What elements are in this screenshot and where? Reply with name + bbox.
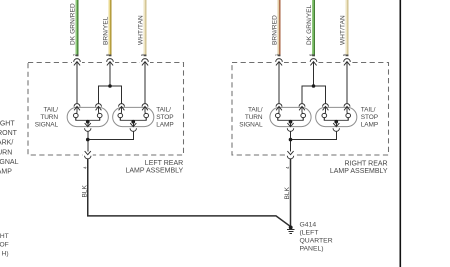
lamp L2 tail/stop common junction	[131, 120, 135, 124]
connector C1 pin 5 (left box)	[142, 59, 149, 66]
svg-text:TAIL/: TAIL/	[43, 107, 58, 114]
lamp L4 tail/stop ground lead	[335, 122, 337, 127]
ground bus right box	[290, 131, 292, 151]
svg-text:BRN/RED: BRN/RED	[271, 15, 278, 45]
svg-text:TURN: TURN	[245, 114, 263, 121]
svg-text:HT: HT	[0, 233, 9, 240]
svg-text:DK GRN/RED: DK GRN/RED	[69, 3, 76, 45]
lamp L4 tail/stop bottom connector	[333, 128, 339, 131]
svg-text:BLK: BLK	[81, 184, 88, 197]
connector C1 pin 2 (left box)	[74, 59, 81, 66]
connector C1 pin 6 (left box)	[107, 59, 114, 66]
lamp L3 tail/turn right terminal connector	[299, 104, 305, 113]
svg-text:1: 1	[274, 53, 279, 56]
wire WHT/TAN (right stop feed)	[346, 0, 349, 56]
lamp L3 tail/turn right filament	[301, 112, 306, 120]
wire tail feed drop	[109, 62, 111, 86]
svg-text:BRN/YEL: BRN/YEL	[102, 16, 109, 45]
lamp L3 tail/turn bottom connector	[287, 128, 293, 131]
wire tail feed drop (right)	[313, 62, 315, 86]
lamp L4 tail/stop left terminal connector	[323, 104, 329, 113]
svg-text:STOP: STOP	[156, 114, 173, 121]
lamp L2 tail/stop left terminal connector	[119, 104, 125, 113]
svg-text:WHT/TAN: WHT/TAN	[339, 15, 346, 45]
svg-text:H): H)	[2, 250, 9, 257]
svg-text:STOP: STOP	[361, 114, 378, 121]
connector C2 pin 6 (right box)	[310, 59, 317, 66]
wire WHT/TAN (left stop feed)	[144, 0, 147, 56]
svg-text:TURN: TURN	[40, 114, 58, 121]
left rear lamp assembly box	[28, 63, 184, 156]
lamp L4 tail/stop right filament	[346, 112, 351, 120]
svg-text:DK GRN/YEL: DK GRN/YEL	[306, 4, 313, 45]
lamp L3 tail/turn common junction	[289, 120, 293, 124]
svg-text:QUARTER: QUARTER	[300, 238, 333, 245]
lamp L4 tail/stop internal bus	[324, 118, 348, 121]
wire BRN/YEL (left tail feed)	[109, 0, 112, 56]
svg-text:(LEFT: (LEFT	[300, 230, 319, 237]
lamp L2 tail/stop right terminal connector	[142, 104, 148, 113]
lamp L3 tail/turn ground lead	[290, 122, 292, 127]
lamp L1 tail/turn left terminal connector	[74, 104, 80, 113]
lamp L3 tail/turn left terminal connector	[276, 104, 282, 113]
tail feed branch rail (right box)	[302, 86, 326, 103]
connector C2 pin 5 (right box)	[344, 59, 351, 66]
lamp L4 tail/stop common junction	[334, 120, 338, 124]
svg-text:5: 5	[140, 53, 145, 56]
lamp L4 tail/stop: housing	[316, 107, 357, 126]
lamp L2 tail/stop ground lead	[132, 122, 134, 127]
lamp L1 tail/turn left filament	[73, 112, 78, 120]
splice node (left box)	[108, 84, 112, 88]
lamp L1 tail/turn bottom connector	[85, 128, 91, 131]
svg-text:TAIL/: TAIL/	[361, 107, 376, 114]
right rear lamp assembly box	[232, 63, 389, 156]
tail feed branch rail (left box)	[99, 86, 122, 103]
wire to right lamp3 left terminal	[278, 62, 280, 104]
svg-text:RIGHT: RIGHT	[0, 120, 15, 127]
page divider line	[399, 0, 401, 267]
BLK ground wire from right box to G414	[290, 159, 292, 227]
wire to right lamp4 right terminal	[346, 62, 348, 104]
BLK ground wire from left box to G414	[88, 159, 290, 226]
svg-text:2: 2	[72, 53, 77, 56]
svg-text:5: 5	[342, 53, 347, 56]
lamp L3 tail/turn internal bus	[278, 118, 303, 121]
svg-text:TAIL/: TAIL/	[156, 107, 171, 114]
svg-text:WHT/TAN: WHT/TAN	[137, 15, 144, 45]
lamp L3 tail/turn: housing	[270, 107, 311, 126]
wire BRN/RED (right turn signal feed)	[278, 0, 281, 56]
ground G414 symbol	[289, 225, 293, 229]
lamp L1 tail/turn ground lead	[87, 122, 89, 127]
lamp L1 tail/turn right filament	[97, 112, 102, 120]
svg-text:TAIL/: TAIL/	[248, 107, 263, 114]
ground junction (right box)	[289, 138, 293, 142]
lamp L4 tail/stop left filament	[322, 112, 327, 120]
svg-text:PARK/: PARK/	[0, 140, 13, 147]
splice node (right box)	[312, 84, 316, 88]
lamp L2 tail/stop right filament	[144, 112, 149, 120]
svg-text:6: 6	[105, 53, 110, 56]
svg-text:4: 4	[82, 166, 87, 169]
svg-text:PANEL): PANEL)	[300, 246, 324, 253]
lamp L1 tail/turn right terminal connector	[96, 104, 102, 113]
svg-text:SIGNAL: SIGNAL	[239, 121, 263, 128]
wire DK GRN/RED (left turn signal feed)	[76, 0, 79, 56]
svg-text:LAMP ASSEMBLY: LAMP ASSEMBLY	[330, 168, 388, 175]
svg-text:TURN: TURN	[0, 149, 12, 156]
svg-text:LAMP: LAMP	[361, 121, 378, 128]
lamp L1 tail/turn: housing	[67, 107, 108, 126]
connector, left box ground exit	[85, 151, 91, 155]
lamp L1 tail/turn common junction	[86, 120, 90, 124]
svg-text:LAMP: LAMP	[156, 121, 173, 128]
connector C2 pin 1 (right box)	[276, 59, 283, 66]
svg-text:SIGNAL: SIGNAL	[35, 121, 59, 128]
ground junction (left box)	[86, 138, 90, 142]
svg-text:LAMP: LAMP	[0, 169, 12, 176]
svg-text:4: 4	[285, 166, 290, 169]
lamp L1 tail/turn internal bus	[76, 118, 100, 121]
lamp L3 tail/turn left filament	[275, 112, 280, 120]
wire DK GRN/YEL (right tail feed)	[312, 0, 315, 56]
lamp L4 tail/stop right terminal connector	[344, 104, 350, 113]
lamp L2 tail/stop bottom connector	[130, 128, 136, 131]
ground bus left box	[87, 131, 89, 151]
wire to left lamp2 right terminal	[144, 62, 146, 104]
svg-text:FRONT: FRONT	[0, 130, 18, 137]
lamp L2 tail/stop internal bus	[120, 118, 146, 121]
svg-text:SIGNAL: SIGNAL	[0, 159, 19, 166]
lamp L2 tail/stop left filament	[118, 112, 123, 120]
svg-text:LAMP ASSEMBLY: LAMP ASSEMBLY	[125, 167, 183, 174]
wire to left lamp1 left terminal	[76, 62, 78, 104]
svg-text:G414: G414	[300, 222, 317, 229]
svg-text:RIGHT REAR: RIGHT REAR	[345, 160, 388, 167]
svg-text:LEFT REAR: LEFT REAR	[145, 160, 183, 167]
svg-text:6: 6	[308, 53, 313, 56]
svg-text:OF: OF	[0, 242, 9, 249]
connector, right box ground exit	[287, 151, 293, 155]
lamp L2 tail/stop: housing	[113, 107, 154, 126]
svg-text:BLK: BLK	[284, 186, 291, 199]
